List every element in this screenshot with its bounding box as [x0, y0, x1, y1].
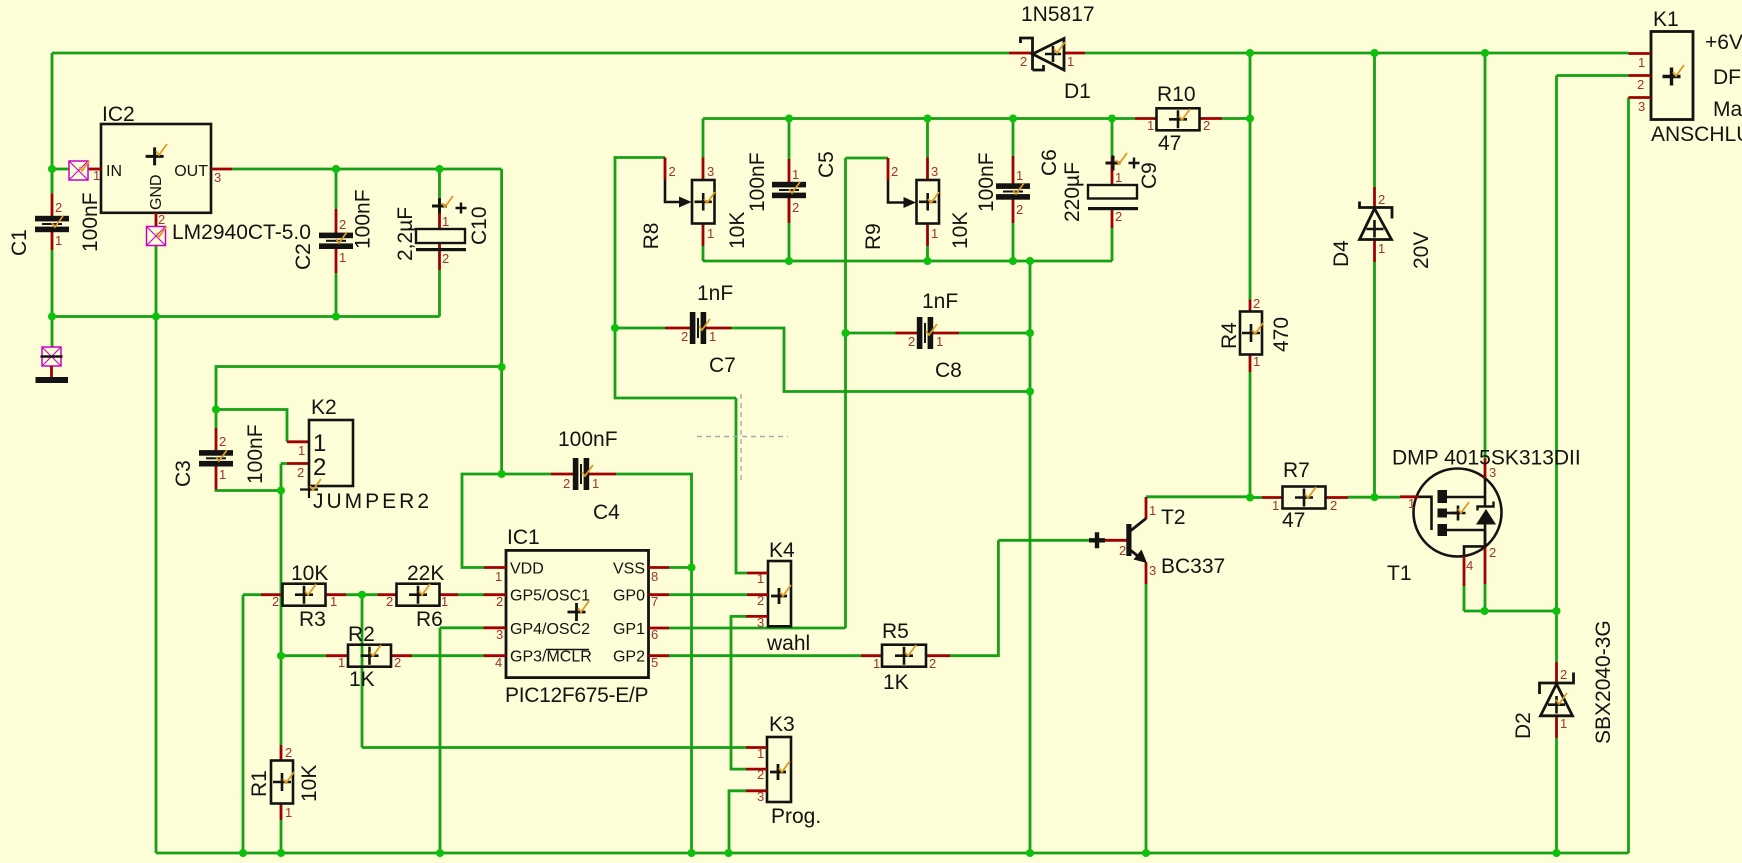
wire R8 pin1 to bottom row — [702, 246, 705, 261]
svg-text:2: 2 — [563, 476, 570, 491]
IC1 pin5 GP2 stub — [649, 654, 670, 657]
wire R8 pin3 drop — [702, 119, 705, 158]
svg-text:2: 2 — [285, 745, 292, 760]
wire GP2 to R5 — [669, 654, 861, 657]
svg-text:10K: 10K — [949, 212, 972, 249]
svg-text:10K: 10K — [726, 212, 749, 249]
wire R7 left link — [1250, 496, 1262, 499]
junction VSS — [688, 564, 696, 572]
wire K1 pin3 vertical to bottom rail — [1627, 98, 1630, 854]
svg-text:K4: K4 — [769, 539, 795, 562]
svg-text:1: 1 — [330, 594, 337, 609]
wire to T2 base — [998, 539, 1103, 542]
wire C7 right corner — [732, 328, 1031, 392]
wire K1 pin2 vertical — [1555, 76, 1558, 612]
R5 check — [905, 645, 916, 656]
wire R9 pin3 drop — [926, 119, 929, 158]
wire VSS down to bottom rail — [690, 568, 693, 854]
junction source row K1pin2 — [1553, 607, 1561, 615]
D4 pin2 lead — [1373, 187, 1376, 208]
capacitor C3 — [199, 450, 233, 466]
svg-text:PIC12F675-E/P: PIC12F675-E/P — [505, 684, 648, 707]
svg-text:BC337: BC337 — [1161, 555, 1225, 578]
ground bar — [36, 377, 69, 383]
svg-text:6: 6 — [651, 627, 658, 642]
junction C5 bottom — [785, 257, 793, 265]
svg-text:3: 3 — [707, 164, 714, 179]
wire K2 net down to R2 junction — [280, 491, 283, 656]
IC1 pin3 GP4 stub — [484, 626, 507, 629]
wire +5V from IC2 OUT to C10 corner — [232, 168, 501, 171]
R3 pin2 lead — [261, 593, 283, 596]
C9 bottom lead — [1111, 210, 1114, 228]
C10 polarity plus — [456, 203, 467, 214]
wire GP4 vertical to rail — [439, 628, 442, 853]
svg-text:7: 7 — [651, 594, 658, 609]
K3 origin cross — [770, 764, 786, 780]
R6 check — [419, 584, 430, 595]
svg-text:3: 3 — [757, 789, 764, 804]
svg-text:1: 1 — [931, 226, 938, 241]
D1 check — [1054, 42, 1065, 53]
R9 wiper arm — [888, 180, 916, 208]
T1 drain line — [1447, 478, 1485, 506]
svg-text:Prog.: Prog. — [771, 805, 821, 828]
svg-text:GP3/MCLR: GP3/MCLR — [510, 649, 592, 666]
T2 base lead — [1104, 539, 1127, 542]
svg-text:IC2: IC2 — [102, 103, 135, 126]
wire +5V to VDD corner — [462, 474, 502, 568]
C4 left lead — [551, 473, 573, 476]
K3 pin2 stub — [746, 768, 767, 771]
K4 pin2 stub — [747, 593, 768, 596]
svg-text:10K: 10K — [298, 765, 321, 802]
resistor R3 — [283, 584, 326, 606]
T1 body diode — [1476, 502, 1496, 548]
T1 pin4 lead — [1463, 557, 1466, 587]
svg-text:5: 5 — [651, 655, 658, 670]
svg-text:K1: K1 — [1653, 8, 1679, 31]
junction rail K3 — [725, 849, 733, 857]
K2 body — [309, 420, 353, 486]
D1 pin1 lead — [1064, 52, 1085, 55]
C3 bottom lead — [215, 467, 218, 490]
svg-text:470: 470 — [1270, 317, 1293, 352]
diode D2 symbol — [1540, 673, 1574, 716]
IC2 IN pin box — [69, 161, 88, 180]
R1 top lead — [280, 745, 283, 760]
R3 check — [305, 584, 316, 595]
wire GP1 to right — [669, 627, 846, 630]
junction C8 right — [1026, 329, 1034, 337]
svg-text:T2: T2 — [1161, 506, 1186, 529]
R9 check — [928, 192, 939, 203]
R2 check — [370, 645, 381, 656]
C2 top lead — [335, 209, 338, 233]
svg-text:4: 4 — [495, 655, 502, 670]
svg-text:100nF: 100nF — [352, 189, 375, 249]
svg-text:R8: R8 — [640, 223, 663, 250]
wire C7 left link — [615, 327, 665, 330]
C10 bottom lead — [438, 243, 441, 270]
wire T2 emitter down — [1145, 584, 1148, 853]
wire bottom GND rail — [156, 852, 1629, 855]
svg-text:22K: 22K — [407, 562, 444, 585]
svg-text:1: 1 — [709, 329, 716, 344]
svg-text:R7: R7 — [1283, 459, 1310, 482]
C9 origin cross — [1106, 156, 1121, 171]
IC2 pin IN stub — [88, 168, 101, 171]
diode D1 symbol — [1021, 38, 1065, 70]
K3 pin3 stub — [746, 789, 767, 792]
R1 bottom lead — [280, 804, 283, 820]
svg-text:100nF: 100nF — [975, 152, 998, 212]
svg-text:R1: R1 — [248, 770, 271, 797]
junction C7 branch — [1026, 388, 1034, 396]
svg-text:1: 1 — [1147, 118, 1154, 133]
R4 check — [1252, 323, 1263, 334]
junction C7-R8 node — [611, 324, 619, 332]
junction GND row IC2 — [152, 313, 160, 321]
svg-text:R5: R5 — [882, 620, 909, 643]
svg-text:1: 1 — [1016, 168, 1023, 183]
wire D2 top link — [1555, 611, 1558, 662]
wire VSS pin link — [669, 566, 692, 569]
wire C3 top link — [215, 410, 218, 429]
C6 bottom lead — [1012, 198, 1015, 223]
wire C2 bottom link — [335, 273, 338, 317]
svg-text:C2: C2 — [292, 243, 315, 270]
IC1 pin4 GP3 stub — [484, 654, 507, 657]
junction R3-R6 — [358, 591, 366, 599]
wire D2 bottom to rail — [1555, 738, 1558, 853]
wire GP4 to left — [440, 626, 484, 629]
svg-text:C5: C5 — [815, 151, 838, 178]
wire R4 top vertical — [1249, 53, 1252, 300]
wire C10 bottom to GND row — [438, 270, 441, 317]
IC1 MCLR overline — [546, 649, 589, 651]
wire C6 top link — [1012, 119, 1015, 157]
wire R2 pin2 to GP3 — [412, 654, 484, 657]
pin K2 1 stub — [287, 440, 309, 443]
svg-text:K2: K2 — [311, 396, 337, 419]
svg-text:2: 2 — [442, 251, 449, 266]
svg-text:1: 1 — [1272, 498, 1279, 513]
svg-text:JUMPER2: JUMPER2 — [313, 490, 432, 513]
junction R4 top — [1246, 115, 1254, 123]
IC1 origin cross — [568, 603, 586, 621]
svg-text:2: 2 — [1637, 77, 1644, 92]
svg-text:2: 2 — [1489, 545, 1496, 560]
svg-text:1: 1 — [757, 746, 764, 761]
svg-text:1: 1 — [1253, 354, 1260, 369]
junction source row T1pin2 — [1481, 607, 1489, 615]
IC1 pin8 VSS stub — [649, 566, 670, 569]
wire R10 right to vertical — [1222, 117, 1250, 120]
svg-text:DF: DF — [1713, 66, 1741, 89]
T1 source jog — [1447, 530, 1485, 557]
svg-text:VDD: VDD — [510, 561, 544, 578]
wire T1 pin2 down — [1484, 584, 1487, 611]
D2 pin2 lead — [1555, 662, 1558, 683]
R10 pin1 lead — [1135, 117, 1157, 120]
K4 check — [780, 585, 791, 596]
K4 pin3 stub — [746, 615, 768, 618]
svg-text:1: 1 — [792, 167, 799, 182]
C4 check — [582, 465, 593, 476]
wire C8 right link — [959, 332, 1030, 335]
svg-text:R9: R9 — [862, 223, 885, 250]
R8 pin2 wiper lead — [664, 158, 667, 180]
wire K2 pin2 horizontal — [281, 462, 287, 465]
C3 check — [216, 450, 227, 461]
junction K2-C3 top — [212, 406, 220, 414]
svg-text:GND: GND — [148, 174, 165, 210]
R8 pin3 lead — [702, 158, 705, 181]
svg-text:Masse: Masse — [1713, 98, 1742, 121]
C8 left lead — [896, 332, 918, 335]
junction top R4 — [1246, 49, 1254, 57]
C10 origin cross — [432, 199, 447, 214]
svg-text:3: 3 — [496, 627, 503, 642]
svg-text:1K: 1K — [349, 668, 375, 691]
svg-text:1: 1 — [495, 569, 502, 584]
svg-text:2: 2 — [908, 334, 915, 349]
svg-text:100nF: 100nF — [558, 428, 618, 451]
R8 wiper arm — [665, 180, 692, 208]
C5 check — [789, 182, 800, 193]
wire VIN top rail right of D1 to K1 pin1 — [1085, 52, 1629, 55]
junction rail GND mid — [1026, 849, 1034, 857]
T1 origin cross — [1451, 506, 1466, 521]
IC2 body — [101, 124, 211, 213]
D1 pin2 lead — [1009, 52, 1033, 55]
wire R8 wiper to C7 node — [615, 158, 665, 329]
resistor R10 — [1157, 108, 1200, 130]
svg-text:R3: R3 — [299, 608, 326, 631]
svg-text:+6V: +6V — [1705, 31, 1742, 54]
svg-text:2: 2 — [1378, 192, 1385, 207]
IC2 GND pin box — [147, 227, 166, 246]
R7 check — [1305, 487, 1316, 498]
K2 origin check — [310, 479, 321, 490]
R2 pin2 lead — [391, 654, 412, 657]
junction C9 top — [1108, 115, 1116, 123]
capacitor C6 — [996, 183, 1030, 199]
resistor R5 — [882, 645, 926, 667]
K1 pin3 stub — [1629, 96, 1652, 99]
svg-text:1: 1 — [93, 168, 100, 183]
wire C10 top link — [438, 169, 441, 198]
svg-text:2: 2 — [681, 329, 688, 344]
wire to R9 wiper — [846, 157, 889, 160]
svg-text:D1: D1 — [1064, 80, 1091, 103]
wire GND mid vertical — [1029, 261, 1032, 853]
svg-text:1: 1 — [1115, 170, 1122, 185]
D2 pin1 lead — [1555, 716, 1558, 738]
C2 bottom lead — [335, 249, 338, 273]
C7 check — [699, 319, 710, 330]
IC1 pin6 GP1 stub — [649, 627, 670, 630]
wire R2 junction down to R1 — [280, 656, 283, 745]
C8 right lead — [933, 332, 959, 335]
junction GND mid top — [1026, 257, 1034, 265]
svg-text:C7: C7 — [709, 354, 736, 377]
svg-text:DMP 4015SK313DII: DMP 4015SK313DII — [1392, 447, 1581, 470]
svg-text:2: 2 — [1115, 209, 1122, 224]
svg-text:2: 2 — [669, 164, 676, 179]
wire GP0 to K4 pin2 — [669, 593, 747, 596]
wire mid rail — [703, 117, 1135, 120]
svg-text:2: 2 — [394, 655, 401, 670]
C3 top lead — [215, 428, 218, 450]
wire K4 pin3 to K3 pin2 — [731, 616, 746, 769]
K2 origin cross — [300, 481, 318, 498]
svg-text:D2: D2 — [1512, 712, 1535, 739]
junction rail D2 — [1553, 849, 1561, 857]
C7 right lead — [706, 327, 732, 330]
svg-text:1nF: 1nF — [697, 282, 733, 305]
junction top T1 — [1481, 49, 1489, 57]
wire +5V right vertical — [500, 169, 503, 474]
junction VIN-C1-IN — [48, 165, 56, 173]
svg-text:C4: C4 — [593, 501, 620, 524]
svg-text:1: 1 — [1067, 54, 1074, 69]
D1 origin cross — [1045, 46, 1061, 62]
svg-text:2: 2 — [1016, 202, 1023, 217]
IC1 pin7 GP0 stub — [649, 593, 670, 596]
K1 check — [1673, 65, 1684, 76]
svg-text:IN: IN — [106, 163, 122, 180]
svg-text:R6: R6 — [416, 608, 443, 631]
R10 pin2 lead — [1200, 117, 1223, 120]
svg-text:47: 47 — [1282, 509, 1305, 532]
K1 body — [1651, 32, 1693, 120]
T2 collector lead — [1145, 497, 1148, 519]
C8 check — [926, 324, 937, 335]
svg-text:1K: 1K — [883, 671, 909, 694]
R4 pin1 lead — [1249, 354, 1252, 372]
svg-text:1: 1 — [1638, 55, 1645, 70]
wire R3-R6 junction down — [361, 595, 364, 748]
R9 pin1 lead — [926, 224, 929, 247]
IC2 GND pin box check — [157, 227, 167, 237]
svg-text:1: 1 — [298, 443, 305, 458]
svg-text:1: 1 — [592, 476, 599, 491]
svg-text:2: 2 — [386, 594, 393, 609]
C9 polarity plus — [1129, 158, 1140, 169]
T1 gate lead — [1400, 495, 1419, 498]
svg-text:2: 2 — [757, 593, 764, 608]
junction C2 top — [332, 165, 340, 173]
svg-text:VSS: VSS — [613, 561, 645, 578]
svg-text:D4: D4 — [1330, 240, 1353, 267]
IC2 pin GND stub — [155, 213, 158, 227]
R8 pin1 lead — [702, 224, 705, 247]
wire source row — [1464, 610, 1557, 613]
T1 channel squares — [1438, 490, 1448, 536]
svg-text:1: 1 — [936, 334, 943, 349]
wire R2 pin1 link — [281, 654, 326, 657]
junction R7 left — [1246, 494, 1254, 502]
svg-text:1: 1 — [1149, 503, 1156, 518]
wire GND symbol drop — [51, 317, 54, 348]
C4 right lead — [589, 473, 616, 476]
junction +5V VDD-C4 — [498, 470, 506, 478]
wire +5V branch to K2 area — [216, 367, 502, 410]
wire K3 pin3 down to rail — [729, 791, 746, 853]
wire C2 top link — [335, 169, 338, 209]
svg-text:2: 2 — [339, 217, 346, 232]
svg-text:100nF: 100nF — [244, 424, 267, 484]
C1 check — [52, 216, 63, 227]
svg-text:GP0: GP0 — [613, 588, 645, 605]
wire C7 lower branch to K4 net — [615, 328, 736, 398]
wire C1 to GND-row (through C1) — [51, 169, 54, 193]
svg-text:1: 1 — [757, 571, 764, 586]
svg-text:1: 1 — [339, 250, 346, 265]
R2 pin1 lead — [326, 654, 348, 657]
svg-text:100nF: 100nF — [79, 192, 102, 252]
wire D4 bottom to gate net — [1373, 262, 1376, 497]
svg-text:2: 2 — [757, 767, 764, 782]
svg-text:100nF: 100nF — [746, 152, 769, 212]
svg-text:3: 3 — [1638, 99, 1645, 114]
trimmer R9 body — [917, 180, 940, 224]
R7 pin1 lead — [1262, 496, 1282, 499]
svg-text:1: 1 — [219, 467, 226, 482]
wire T1 pin4 down — [1463, 586, 1466, 611]
IC1 body — [506, 550, 649, 677]
D4 pin1 lead — [1373, 240, 1376, 263]
wire C5 top link — [788, 119, 791, 160]
wire T2 collector — [1146, 495, 1250, 498]
svg-text:C10: C10 — [468, 206, 491, 245]
wire K2 pin1 link — [216, 410, 287, 442]
GND symbol pin box — [41, 347, 63, 366]
svg-text:2,2µF: 2,2µF — [394, 207, 417, 261]
IC1 pin1 VDD stub — [484, 566, 506, 569]
svg-text:2: 2 — [55, 200, 62, 215]
junction R9 bottom — [924, 257, 932, 265]
wire C5 bottom link — [788, 197, 791, 261]
junction rail R1 — [277, 849, 285, 857]
svg-text:3: 3 — [1489, 465, 1496, 480]
R5 pin1 lead — [861, 654, 883, 657]
svg-text:R4: R4 — [1218, 322, 1241, 349]
junction R2 left — [277, 652, 285, 660]
K1 origin cross — [1663, 68, 1681, 86]
svg-text:IC1: IC1 — [507, 526, 540, 549]
svg-text:wahl: wahl — [766, 632, 810, 655]
svg-text:8: 8 — [651, 569, 658, 584]
R3 pin1 lead — [325, 593, 346, 596]
R4 pin2 lead — [1249, 300, 1252, 313]
wire R5 pin2 corner — [950, 540, 998, 655]
junction C10 top — [436, 165, 444, 173]
svg-text:C3: C3 — [172, 460, 195, 487]
C1 bottom lead — [51, 232, 54, 250]
svg-text:1: 1 — [442, 214, 449, 229]
svg-text:1: 1 — [1408, 496, 1415, 511]
svg-text:1: 1 — [1378, 241, 1385, 256]
wire C8 left link — [846, 332, 896, 335]
junction gate D4 — [1371, 493, 1379, 501]
T2 emitter lead — [1145, 563, 1148, 585]
svg-text:2: 2 — [219, 434, 226, 449]
svg-text:2: 2 — [297, 465, 304, 480]
resistor R4 — [1240, 312, 1262, 355]
